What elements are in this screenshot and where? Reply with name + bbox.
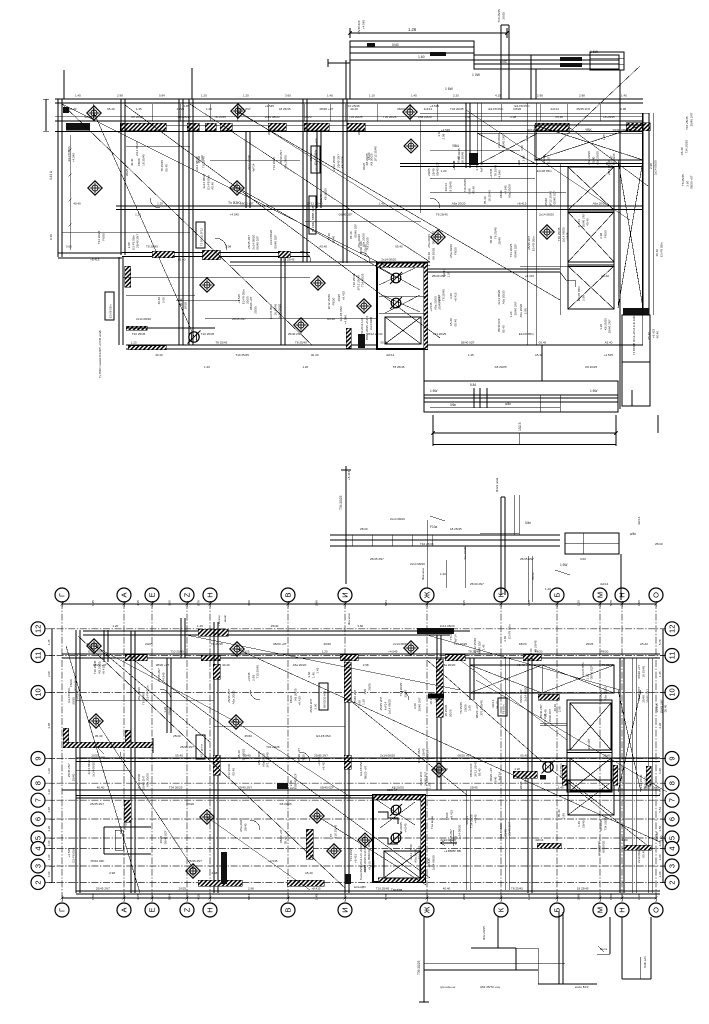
- top plan: label box mid: [311, 146, 320, 173]
- bottom plan: stair core box (thick): [373, 795, 425, 882]
- svg-text:11: 11: [34, 652, 43, 660]
- svg-text:вл/в ЦВУ: вл/в ЦВУ: [354, 885, 366, 889]
- svg-text:2.98: 2.98: [109, 871, 115, 875]
- svg-text:+8.415: +8.415: [523, 775, 527, 785]
- svg-text:05.40: 05.40: [395, 245, 403, 249]
- svg-text:1.20: 1.20: [648, 781, 652, 787]
- svg-text:4: 4: [668, 846, 677, 850]
- svg-text:2.98: 2.98: [462, 894, 466, 900]
- top plan: beam y192: [430, 191, 566, 193]
- svg-text:08/20 +0T: 08/20 +0T: [431, 231, 435, 245]
- svg-text:3: 3: [668, 864, 677, 868]
- svg-text:3.60: 3.60: [563, 770, 567, 776]
- top plan: bottom edge mid-right run: [427, 344, 542, 346]
- svg-text:1.45: 1.45: [558, 786, 564, 790]
- svg-text:18 25/45: 18 25/45: [577, 887, 589, 891]
- top plan: beam risers: [500, 25, 502, 99]
- svg-text:2.98: 2.98: [441, 133, 445, 139]
- svg-text:Г: Г: [58, 593, 67, 597]
- top plan: upper-right beam A: [350, 41, 474, 60]
- svg-text:20/25: 20/25: [91, 754, 99, 758]
- svg-text:08/20 +0T: 08/20 +0T: [397, 107, 411, 111]
- svg-text:A5.40: A5.40: [69, 107, 77, 111]
- svg-text:F8/20: F8/20: [101, 233, 105, 241]
- svg-text:Н: Н: [618, 907, 627, 912]
- svg-text:1.20: 1.20: [135, 213, 141, 217]
- svg-text:A5.40: A5.40: [517, 663, 525, 667]
- svg-text:К: К: [497, 907, 506, 912]
- svg-text:+8.415: +8.415: [102, 665, 106, 675]
- svg-text:T34 20/25: T34 20/25: [339, 495, 343, 510]
- top plan: bottom edge left run: [126, 344, 377, 346]
- svg-text:1.20: 1.20: [47, 854, 51, 860]
- svg-text:40.40: 40.40: [130, 158, 134, 166]
- svg-text:A5.40: A5.40: [613, 767, 621, 771]
- svg-text:T34 20/25: T34 20/25: [241, 748, 245, 762]
- svg-text:20/25: 20/25: [357, 127, 361, 135]
- svg-text:25/40: 25/40: [360, 527, 368, 531]
- svg-text:40.40: 40.40: [73, 202, 81, 206]
- top plan: left column interior dim line: [69, 135, 71, 250]
- top plan: top band column ticks: [92, 104, 94, 121]
- svg-text:T8 25/45: T8 25/45: [215, 341, 227, 345]
- svg-text:+4.545: +4.545: [161, 672, 165, 682]
- svg-text:1.50: 1.50: [609, 894, 613, 900]
- bottom plan: small solid box: [277, 783, 288, 789]
- svg-text:05.40: 05.40: [453, 319, 457, 327]
- svg-text:1.45: 1.45: [468, 353, 474, 357]
- svg-text:11: 11: [668, 652, 677, 660]
- svg-text:2.98: 2.98: [521, 155, 525, 161]
- svg-text:0/40: 0/40: [392, 43, 399, 47]
- top plan: wide X panel left: [477, 133, 538, 165]
- svg-text:3.60: 3.60: [161, 297, 165, 303]
- svg-text:E: E: [148, 592, 157, 597]
- svg-text:/ую ш/ш+ш: /ую ш/ш+ш: [440, 985, 456, 989]
- bottom plan: riser pair at x183: [180, 618, 182, 658]
- svg-text:40.40: 40.40: [222, 663, 230, 667]
- svg-text:25/40: 25/40: [173, 734, 181, 738]
- svg-text:05.40: 05.40: [664, 704, 668, 712]
- svg-text:3.60: 3.60: [580, 557, 586, 561]
- svg-text:T10 25/45: T10 25/45: [256, 665, 260, 679]
- svg-text:A53 45/70 +шу: A53 45/70 +шу: [480, 985, 501, 989]
- svg-text:A5.40: A5.40: [472, 186, 476, 194]
- top plan: diamonds: [87, 106, 101, 120]
- svg-text:18 25/45: 18 25/45: [641, 665, 645, 677]
- top plan: mid-right beams: [455, 344, 643, 346]
- bottom plan: axis-11 beam: [62, 653, 660, 655]
- svg-text:25/40 2N7: 25/40 2N7: [548, 709, 552, 722]
- svg-text:1.20: 1.20: [514, 767, 520, 771]
- svg-text:T34 20/25: T34 20/25: [684, 140, 688, 154]
- svg-text:20/25: 20/25: [372, 860, 376, 868]
- svg-text:Ж: Ж: [423, 591, 432, 598]
- bottom plan: hatched bars lower: [538, 694, 559, 700]
- svg-text:1.45: 1.45: [183, 104, 189, 108]
- svg-text:2.98: 2.98: [47, 671, 51, 677]
- svg-text:25/45 2N7: 25/45 2N7: [689, 112, 693, 126]
- svg-text:05/40 0ZF: 05/40 0ZF: [461, 341, 475, 345]
- svg-text:Z: Z: [183, 907, 192, 912]
- svg-text:2: 2: [34, 880, 43, 884]
- svg-text:4.15: 4.15: [495, 94, 501, 98]
- svg-text:Tшла 05/40 2F12 A-III +8.415: Tшла 05/40 2F12 A-III +8.415: [359, 844, 363, 880]
- svg-text:10: 10: [34, 688, 43, 696]
- svg-text:F8 05/n: F8 05/n: [501, 704, 505, 714]
- svg-text:+8.415: +8.415: [525, 274, 535, 278]
- top plan: beams right of core: [427, 268, 560, 270]
- svg-text:+4.545: +4.545: [474, 814, 478, 824]
- top plan: mid horizontal beam y208: [116, 205, 643, 207]
- svg-text:1.20: 1.20: [131, 341, 137, 345]
- svg-text:25/45 2N7: 25/45 2N7: [96, 887, 110, 891]
- svg-text:2x14 08/20: 2x14 08/20: [388, 699, 392, 714]
- bottom plan: axis-9 beam: [76, 757, 660, 759]
- svg-text:0.48: 0.48: [49, 234, 53, 240]
- svg-text:5.78: 5.78: [658, 789, 662, 795]
- svg-text:1.45: 1.45: [136, 107, 142, 111]
- svg-text:Ф4x 20/25: Ф4x 20/25: [482, 926, 486, 940]
- svg-text:3.60: 3.60: [520, 145, 524, 151]
- svg-text:E3-F8 05/n: E3-F8 05/n: [313, 150, 317, 165]
- svg-text:F8/20: F8/20: [186, 802, 194, 806]
- svg-text:05.40: 05.40: [520, 754, 528, 758]
- top plan: right column lower boxes: [623, 308, 649, 315]
- svg-text:K8 20/25: K8 20/25: [323, 188, 327, 200]
- svg-text:05.40: 05.40: [283, 836, 287, 844]
- top plan: corner marker: [63, 107, 69, 113]
- top plan: horizontal y254 left: [122, 252, 310, 254]
- svg-text:1.20: 1.20: [204, 365, 210, 369]
- bottom plan: left dimension ticks: [51, 629, 53, 883]
- svg-text:Ф122 ж/ив: Ф122 ж/ив: [495, 477, 499, 492]
- svg-text:A5.40: A5.40: [535, 353, 543, 357]
- svg-text:И: И: [341, 907, 350, 912]
- svg-text:40.40: 40.40: [311, 353, 319, 357]
- svg-text:1.45: 1.45: [525, 135, 529, 141]
- bottom plan: right X-box column: [567, 700, 612, 792]
- svg-text:2F12 25/40: 2F12 25/40: [73, 676, 77, 692]
- svg-text:18 25/45: 18 25/45: [279, 107, 291, 111]
- top plan: left edge wall: [57, 99, 59, 257]
- svg-text:05/40 0ZF: 05/40 0ZF: [436, 162, 440, 176]
- svg-text:2x14 08/20: 2x14 08/20: [278, 304, 282, 319]
- svg-text:05/40 0ZF: 05/40 0ZF: [91, 859, 105, 863]
- svg-text:2.98: 2.98: [581, 295, 585, 301]
- svg-text:05.40: 05.40: [107, 107, 115, 111]
- svg-text:T8 25/45: T8 25/45: [146, 245, 158, 249]
- svg-text:1.45: 1.45: [315, 894, 319, 900]
- svg-text:A5a 20/20: A5a 20/20: [508, 184, 512, 198]
- svg-text:1.20: 1.20: [658, 768, 662, 774]
- svg-text:E3-F8 05/n: E3-F8 05/n: [507, 624, 511, 639]
- svg-text:12: 12: [668, 625, 677, 633]
- svg-text:40.40: 40.40: [443, 887, 451, 891]
- svg-text:2.98: 2.98: [363, 663, 369, 667]
- svg-text:20/25: 20/25: [323, 642, 331, 646]
- top plan: top-right dimension line: [350, 32, 507, 34]
- svg-text:6: 6: [34, 817, 43, 821]
- svg-text:F8/20: F8/20: [123, 822, 127, 830]
- svg-text:20/25: 20/25: [125, 168, 129, 176]
- svg-text:9: 9: [668, 756, 677, 760]
- svg-text:25/40 2N7: 25/40 2N7: [608, 319, 612, 333]
- svg-text:кш/ш БСУ: кш/ш БСУ: [575, 985, 589, 989]
- svg-text:1 6W: 1 6W: [590, 389, 597, 393]
- svg-text:+4.545: +4.545: [76, 690, 80, 700]
- svg-text:05/40 0ZF: 05/40 0ZF: [339, 213, 353, 217]
- svg-text:T34 20/25: T34 20/25: [272, 157, 276, 170]
- svg-text:05.40: 05.40: [501, 325, 505, 333]
- svg-text:T10 25/45: T10 25/45: [170, 650, 184, 654]
- top plan: interior verticals: [120, 99, 122, 255]
- top plan: label box left: [105, 292, 114, 320]
- top plan: wide X upper right: [535, 125, 643, 160]
- svg-text:5: 5: [34, 836, 43, 840]
- svg-text:08/20 +0T: 08/20 +0T: [609, 155, 613, 169]
- svg-text:2F12 25/40: 2F12 25/40: [367, 332, 383, 336]
- svg-text:1.20: 1.20: [47, 789, 51, 795]
- bottom plan: thick vertical stub: [221, 852, 227, 884]
- svg-text:1.45: 1.45: [658, 671, 662, 677]
- bottom plan: left edge wall: [75, 630, 77, 893]
- svg-text:1.45: 1.45: [316, 667, 320, 673]
- top plan: door swing arcs: [215, 238, 227, 250]
- bottom plan lower extension: horizontals: [424, 962, 565, 964]
- svg-text:3.60: 3.60: [465, 115, 471, 119]
- svg-text:05/40 0ZF: 05/40 0ZF: [256, 236, 260, 250]
- svg-text:+4.545: +4.545: [343, 315, 347, 325]
- svg-text:3.60: 3.60: [468, 705, 472, 711]
- svg-text:+4.545: +4.545: [604, 353, 614, 357]
- bottom plan: long diagonal reference lines: [78, 636, 345, 888]
- bottom plan lower extension: verticals: [497, 917, 499, 948]
- bottom plan: hatched wall segments vertical: [213, 664, 220, 679]
- svg-text:3.60: 3.60: [66, 245, 72, 249]
- svg-text:25/40 2N7: 25/40 2N7: [288, 332, 302, 336]
- svg-text:1.20: 1.20: [201, 94, 207, 98]
- svg-text:E3-F8 05/n: E3-F8 05/n: [71, 847, 75, 862]
- svg-text:+4.545: +4.545: [388, 650, 398, 654]
- svg-text:9: 9: [34, 756, 43, 760]
- top plan: bottom dimension line: [433, 432, 616, 434]
- svg-text:5.78: 5.78: [197, 600, 201, 606]
- svg-text:T8 25/45: T8 25/45: [393, 365, 405, 369]
- svg-text:25/40 2N7: 25/40 2N7: [136, 234, 140, 248]
- svg-text:0/4n: 0/4n: [525, 521, 531, 525]
- svg-text:2F12 25/40: 2F12 25/40: [528, 128, 544, 132]
- svg-text:8: 8: [34, 781, 43, 785]
- svg-text:5.84: 5.84: [168, 894, 172, 900]
- svg-text:08/20 +0T: 08/20 +0T: [320, 107, 334, 111]
- svg-text:E3-F8 05/n: E3-F8 05/n: [316, 734, 331, 738]
- top plan: right X-brace column: [568, 167, 614, 309]
- svg-text:T10 25/45: T10 25/45: [333, 824, 337, 838]
- svg-text:1.45: 1.45: [379, 202, 385, 206]
- svg-text:1.45: 1.45: [197, 624, 203, 628]
- svg-text:05.40: 05.40: [543, 709, 547, 717]
- svg-text:B: B: [284, 592, 293, 597]
- svg-text:25/40 2N7: 25/40 2N7: [646, 689, 650, 703]
- svg-text:+4.545: +4.545: [403, 823, 407, 833]
- svg-text:25/40 2N7: 25/40 2N7: [513, 301, 517, 315]
- svg-text:3.60: 3.60: [168, 600, 172, 606]
- svg-text:K8 20/25: K8 20/25: [131, 115, 143, 119]
- svg-text:2x14 08/20: 2x14 08/20: [91, 762, 95, 777]
- svg-text:A5.40: A5.40: [601, 274, 609, 278]
- top plan: right mid verticals: [476, 103, 478, 162]
- svg-text:1.10: 1.10: [369, 94, 375, 98]
- svg-text:0/6n: 0/6n: [450, 403, 456, 407]
- svg-text:05.40: 05.40: [478, 768, 482, 776]
- svg-text:+4.545: +4.545: [441, 128, 451, 132]
- svg-text:F10a: F10a: [430, 525, 437, 529]
- svg-text:Тзн вв,ав: Тзн вв,ав: [430, 816, 434, 829]
- svg-text:2.20: 2.20: [453, 94, 459, 98]
- svg-text:25/45 2N7: 25/45 2N7: [188, 859, 202, 863]
- svg-text:2.98: 2.98: [315, 600, 319, 606]
- svg-text:2.20: 2.20: [47, 825, 51, 831]
- svg-text:E3-08 05/n: E3-08 05/n: [108, 304, 112, 318]
- bottom plan: right dimension ticks: [662, 629, 664, 883]
- svg-text:25/40: 25/40: [243, 823, 247, 831]
- svg-text:T8 25/45: T8 25/45: [201, 156, 205, 168]
- bottom plan: left grid bubbles: [31, 622, 45, 636]
- svg-text:A5.40: A5.40: [327, 317, 335, 321]
- svg-text:T8 25/45: T8 25/45: [533, 640, 537, 652]
- bottom plan: axis-7 beams: [62, 789, 660, 791]
- svg-text:4: 4: [34, 846, 43, 850]
- svg-text:1.20: 1.20: [545, 587, 551, 591]
- svg-text:T10 25/45: T10 25/45: [376, 887, 390, 891]
- bottom plan: dimension arrow right of core: [440, 842, 457, 844]
- top plan: phi circle lower-left: [188, 331, 201, 344]
- svg-text:4xF14: 4xF14: [479, 164, 483, 173]
- svg-text:4.44 A: 4.44 A: [49, 170, 53, 180]
- svg-text:K8 20/25: K8 20/25: [495, 365, 507, 369]
- svg-text:K3Ф a/m: K3Ф a/m: [643, 956, 647, 968]
- svg-text:T10 25/45: T10 25/45: [346, 104, 360, 108]
- bottom plan: bottom dimension row: [62, 897, 656, 899]
- svg-text:25/40 2N7: 25/40 2N7: [238, 786, 252, 790]
- svg-text:+4.545: +4.545: [268, 859, 278, 863]
- svg-text:A: A: [120, 907, 129, 912]
- svg-text:E3-F8 05/n: E3-F8 05/n: [515, 104, 530, 108]
- svg-text:18 25/45: 18 25/45: [450, 527, 462, 531]
- svg-text:25/40: 25/40: [655, 542, 663, 546]
- svg-text:E3-F8 05/n: E3-F8 05/n: [531, 236, 535, 251]
- svg-text:05.40: 05.40: [178, 258, 186, 262]
- top plan: interior beams lower-left: [123, 276, 310, 278]
- svg-text:A5.40: A5.40: [605, 341, 613, 345]
- bottom plan: bottom edge wall: [76, 890, 660, 892]
- svg-text:05.40: 05.40: [556, 115, 564, 119]
- svg-text:E3-F8 05/n: E3-F8 05/n: [146, 685, 150, 700]
- top plan: top band wall segments: [66, 123, 90, 131]
- svg-text:T34 20/25: T34 20/25: [450, 107, 464, 111]
- svg-text:4xF14: 4xF14: [535, 838, 544, 842]
- svg-text:4xF14: 4xF14: [453, 634, 457, 643]
- svg-text:40.40: 40.40: [155, 353, 163, 357]
- svg-text:1.20: 1.20: [243, 94, 249, 98]
- svg-text:5.84: 5.84: [384, 600, 388, 606]
- svg-text:12: 12: [34, 625, 43, 633]
- svg-text:a/4n: a/4n: [505, 402, 511, 406]
- svg-text:05.40: 05.40: [641, 850, 645, 858]
- svg-text:08/20 +0T: 08/20 +0T: [690, 175, 694, 189]
- svg-text:1.45: 1.45: [433, 697, 437, 703]
- bottom plan: horizontal grid axes: [45, 628, 665, 630]
- svg-text:2F12 25/40: 2F12 25/40: [479, 700, 483, 716]
- svg-text:20/25: 20/25: [253, 306, 257, 314]
- svg-text:25/40 2N7: 25/40 2N7: [417, 697, 421, 711]
- bottom plan upper extension: beam y540: [330, 534, 560, 536]
- svg-text:1.45: 1.45: [75, 94, 81, 98]
- svg-text:4/40 2Й7: 4/40 2Й7: [587, 738, 591, 750]
- svg-text:6: 6: [668, 817, 677, 821]
- bottom plan: right grid bubbles: [665, 622, 679, 636]
- svg-text:+4.545: +4.545: [361, 20, 365, 30]
- bottom plan upper extension: riser at axis Ж: [426, 520, 428, 588]
- svg-text:08/20 +0T: 08/20 +0T: [457, 754, 471, 758]
- svg-text:3.60: 3.60: [659, 835, 663, 841]
- svg-text:+4.545: +4.545: [498, 170, 502, 180]
- bottom plan: thick wall bar y745: [63, 742, 153, 748]
- svg-text:4xF14: 4xF14: [637, 516, 641, 525]
- svg-text:20/25: 20/25: [367, 683, 371, 691]
- svg-text:1.20: 1.20: [441, 169, 447, 173]
- top plan: beam y164 right: [400, 163, 643, 165]
- svg-text:18 25/45: 18 25/45: [487, 190, 491, 202]
- svg-text:T34 20/25: T34 20/25: [266, 745, 280, 749]
- svg-text:2x14 08/20: 2x14 08/20: [390, 517, 405, 521]
- bottom plan: diamond left of core: [358, 833, 372, 847]
- svg-text:08/20 +0T: 08/20 +0T: [363, 765, 367, 779]
- svg-text:T34 20/25: T34 20/25: [418, 845, 422, 859]
- svg-text:40.40: 40.40: [656, 331, 660, 339]
- svg-text:1.20: 1.20: [112, 624, 118, 628]
- svg-text:A5a 20/20: A5a 20/20: [452, 202, 466, 206]
- bottom plan: step details lower-left: [104, 826, 151, 828]
- svg-text:2x14 08/20: 2x14 08/20: [265, 115, 280, 119]
- svg-text:4.15: 4.15: [197, 894, 201, 900]
- svg-text:1.20: 1.20: [428, 783, 432, 789]
- svg-text:K8 20/25: K8 20/25: [341, 156, 345, 168]
- svg-text:4xF14: 4xF14: [600, 582, 609, 586]
- svg-text:1.20: 1.20: [157, 202, 163, 206]
- svg-text:1.50: 1.50: [658, 825, 662, 831]
- svg-text:T8 25/45: T8 25/45: [211, 642, 223, 646]
- svg-text:YBK: YBK: [585, 128, 593, 132]
- svg-text:20/25: 20/25: [179, 887, 187, 891]
- svg-text:T8 25/45: T8 25/45: [441, 289, 445, 301]
- svg-text:A5a 20/20: A5a 20/20: [596, 151, 600, 165]
- svg-text:1.20: 1.20: [440, 572, 446, 576]
- svg-text:05.40: 05.40: [95, 734, 103, 738]
- svg-text:2.98: 2.98: [557, 706, 561, 712]
- svg-text:05.40: 05.40: [539, 341, 547, 345]
- svg-text:вш/вг: вш/вг: [223, 615, 227, 622]
- svg-text:2: 2: [668, 880, 677, 884]
- svg-text:25/40 2N7: 25/40 2N7: [508, 822, 512, 836]
- svg-text:2.20: 2.20: [658, 871, 662, 877]
- svg-text:ВЗ/БЗ 20/25 +8.415: ВЗ/БЗ 20/25 +8.415: [365, 316, 369, 340]
- svg-text:18 25/45: 18 25/45: [603, 115, 615, 119]
- svg-text:1 0W: 1 0W: [472, 73, 481, 77]
- svg-text:152.5: 152.5: [518, 422, 522, 431]
- svg-text:1.50: 1.50: [91, 894, 95, 900]
